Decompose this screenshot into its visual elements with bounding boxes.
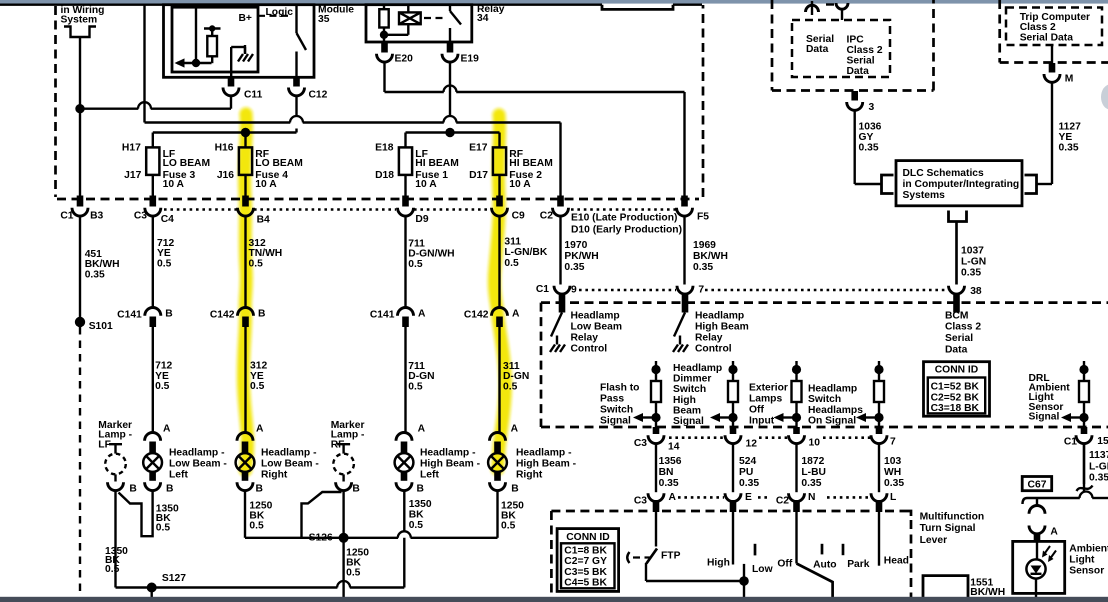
- svg-text:C3: C3: [634, 496, 647, 507]
- svg-text:Headlamp -: Headlamp -: [516, 447, 572, 458]
- svg-text:B: B: [511, 484, 518, 495]
- svg-text:35: 35: [318, 14, 330, 25]
- svg-text:Switch: Switch: [673, 384, 706, 395]
- svg-text:BK: BK: [409, 509, 424, 520]
- svg-text:0.5: 0.5: [157, 258, 172, 269]
- svg-text:Multifunction: Multifunction: [920, 511, 985, 522]
- svg-text:0.5: 0.5: [408, 259, 423, 270]
- svg-text:L-GN: L-GN: [1089, 461, 1108, 472]
- svg-text:C3=5 BK: C3=5 BK: [564, 567, 607, 578]
- svg-text:1356: 1356: [659, 456, 682, 467]
- svg-text:C2=52 BK: C2=52 BK: [931, 392, 980, 403]
- svg-text:1036: 1036: [859, 121, 882, 132]
- svg-text:GY: GY: [859, 132, 874, 143]
- svg-text:Relay: Relay: [695, 332, 723, 343]
- svg-text:Auto: Auto: [813, 560, 836, 571]
- svg-text:B: B: [417, 484, 424, 495]
- svg-text:C141: C141: [117, 309, 142, 320]
- svg-text:Beam: Beam: [673, 405, 701, 416]
- svg-text:Off: Off: [749, 405, 764, 416]
- svg-text:Control: Control: [571, 343, 608, 354]
- svg-text:Low Beam: Low Beam: [571, 321, 623, 332]
- svg-text:D17: D17: [469, 170, 488, 181]
- svg-text:On Signal: On Signal: [808, 416, 856, 427]
- svg-text:Headlamp -: Headlamp -: [420, 447, 476, 458]
- svg-text:B: B: [258, 309, 265, 320]
- svg-text:Class 2: Class 2: [1020, 22, 1056, 33]
- svg-text:Sensor: Sensor: [1069, 565, 1104, 576]
- svg-text:BCM: BCM: [945, 310, 968, 321]
- svg-text:L-GN: L-GN: [961, 257, 986, 268]
- svg-text:15: 15: [1097, 436, 1108, 447]
- svg-text:C2=7 GY: C2=7 GY: [564, 556, 607, 567]
- svg-text:10: 10: [809, 438, 821, 449]
- svg-text:Off: Off: [777, 558, 792, 569]
- svg-text:0.35: 0.35: [859, 143, 879, 154]
- svg-text:Data: Data: [945, 344, 968, 355]
- svg-text:Right: Right: [516, 469, 543, 480]
- svg-text:0.5: 0.5: [346, 567, 361, 578]
- svg-text:High Beam -: High Beam -: [420, 458, 481, 469]
- svg-text:N: N: [808, 492, 815, 503]
- svg-text:L: L: [890, 492, 896, 503]
- svg-text:Low Beam -: Low Beam -: [261, 458, 319, 469]
- svg-text:7: 7: [698, 284, 704, 295]
- svg-text:A: A: [256, 424, 264, 435]
- svg-text:High Beam -: High Beam -: [516, 458, 577, 469]
- svg-text:High Beam: High Beam: [695, 321, 749, 332]
- svg-text:Head: Head: [884, 555, 909, 566]
- svg-text:E: E: [745, 492, 752, 503]
- svg-text:1969: 1969: [693, 240, 716, 251]
- svg-text:0.35: 0.35: [85, 269, 105, 280]
- svg-text:C1: C1: [1064, 437, 1077, 448]
- svg-text:1037: 1037: [961, 246, 984, 257]
- svg-text:B+: B+: [239, 13, 252, 24]
- svg-text:J17: J17: [124, 170, 141, 181]
- svg-text:Signal: Signal: [1029, 411, 1060, 422]
- svg-text:0.5: 0.5: [408, 381, 423, 392]
- svg-text:S127: S127: [162, 573, 186, 584]
- svg-text:0.5: 0.5: [249, 520, 264, 531]
- svg-text:J16: J16: [217, 170, 234, 181]
- svg-text:Exterior: Exterior: [749, 383, 788, 394]
- svg-text:Data: Data: [806, 44, 829, 55]
- svg-text:IPC: IPC: [847, 34, 865, 45]
- svg-text:B: B: [256, 484, 263, 495]
- svg-text:H17: H17: [122, 143, 141, 154]
- svg-text:Headlamp: Headlamp: [571, 310, 620, 321]
- svg-text:A: A: [418, 309, 426, 320]
- svg-text:Data: Data: [847, 66, 870, 77]
- svg-text:High: High: [707, 557, 730, 568]
- svg-text:Input: Input: [749, 416, 775, 427]
- svg-text:Serial: Serial: [847, 55, 875, 66]
- svg-text:LO BEAM: LO BEAM: [163, 158, 210, 169]
- svg-text:Headlamp -: Headlamp -: [169, 447, 225, 458]
- svg-text:DLC Schematics: DLC Schematics: [903, 168, 985, 179]
- svg-text:CONN ID: CONN ID: [566, 532, 609, 543]
- svg-text:38: 38: [970, 286, 982, 297]
- svg-text:Flash to: Flash to: [600, 383, 639, 394]
- svg-text:Headlamp: Headlamp: [808, 383, 857, 394]
- svg-text:Lamps: Lamps: [749, 394, 782, 405]
- svg-text:D9: D9: [415, 214, 428, 225]
- svg-text:Signal: Signal: [600, 416, 631, 427]
- svg-text:A: A: [418, 424, 426, 435]
- svg-text:BN: BN: [659, 467, 674, 478]
- svg-text:PU: PU: [739, 467, 753, 478]
- svg-text:14: 14: [668, 442, 680, 453]
- svg-text:E17: E17: [469, 143, 488, 154]
- svg-text:FTP: FTP: [661, 550, 681, 561]
- svg-text:F5: F5: [697, 211, 709, 222]
- svg-text:10 A: 10 A: [509, 179, 531, 190]
- svg-text:Class 2: Class 2: [847, 45, 883, 56]
- svg-text:1872: 1872: [801, 456, 824, 467]
- svg-text:WH: WH: [884, 467, 901, 478]
- svg-text:E19: E19: [461, 54, 480, 65]
- svg-text:0.5: 0.5: [250, 381, 265, 392]
- svg-text:311: 311: [504, 237, 521, 248]
- svg-text:C1=52 BK: C1=52 BK: [931, 381, 980, 392]
- svg-text:LF: LF: [98, 439, 111, 450]
- svg-text:A: A: [512, 309, 520, 320]
- svg-text:C67: C67: [1028, 480, 1047, 491]
- svg-text:C12: C12: [309, 90, 328, 101]
- svg-text:0.5: 0.5: [155, 381, 170, 392]
- svg-text:12: 12: [746, 439, 758, 450]
- svg-text:0.35: 0.35: [693, 262, 713, 273]
- svg-text:0.5: 0.5: [105, 564, 120, 575]
- svg-text:RF: RF: [331, 439, 345, 450]
- svg-text:1350: 1350: [409, 499, 432, 510]
- svg-text:C141: C141: [370, 309, 395, 320]
- svg-text:YE: YE: [1059, 132, 1073, 143]
- svg-text:0.5: 0.5: [409, 520, 424, 531]
- svg-text:C3=18 BK: C3=18 BK: [931, 403, 980, 414]
- svg-text:A: A: [1050, 527, 1058, 538]
- svg-text:0.5: 0.5: [156, 523, 171, 534]
- svg-text:0.35: 0.35: [739, 478, 759, 489]
- svg-text:H16: H16: [215, 143, 234, 154]
- svg-text:B: B: [352, 484, 359, 495]
- svg-text:HI BEAM: HI BEAM: [415, 158, 458, 169]
- svg-text:L-BU: L-BU: [801, 467, 826, 478]
- svg-text:A: A: [511, 424, 519, 435]
- svg-text:Switch: Switch: [600, 405, 633, 416]
- svg-text:E18: E18: [375, 143, 394, 154]
- svg-text:0.35: 0.35: [659, 478, 679, 489]
- svg-text:0.35: 0.35: [1089, 473, 1108, 484]
- svg-text:0.35: 0.35: [961, 268, 981, 279]
- svg-text:Lever: Lever: [920, 535, 947, 546]
- svg-text:Class 2: Class 2: [945, 322, 981, 333]
- svg-text:Ambient: Ambient: [1069, 543, 1108, 554]
- svg-text:0.5: 0.5: [504, 258, 519, 269]
- svg-text:1127: 1127: [1059, 121, 1082, 132]
- svg-text:0.35: 0.35: [1059, 143, 1079, 154]
- svg-text:1970: 1970: [564, 240, 587, 251]
- svg-text:LO BEAM: LO BEAM: [255, 158, 302, 169]
- svg-text:PK/WH: PK/WH: [564, 251, 598, 262]
- svg-text:Left: Left: [420, 469, 439, 480]
- svg-text:BK/WH: BK/WH: [970, 587, 1005, 598]
- svg-text:C142: C142: [464, 309, 489, 320]
- svg-text:Headlamp: Headlamp: [695, 310, 744, 321]
- svg-text:10 A: 10 A: [415, 179, 437, 190]
- svg-text:A: A: [669, 492, 677, 503]
- svg-text:C4=5 BK: C4=5 BK: [564, 578, 607, 589]
- svg-text:HI BEAM: HI BEAM: [509, 158, 552, 169]
- svg-text:C11: C11: [244, 90, 263, 101]
- svg-text:0.5: 0.5: [501, 520, 516, 531]
- svg-text:Trip Computer: Trip Computer: [1020, 12, 1090, 23]
- svg-text:Control: Control: [695, 343, 732, 354]
- svg-text:C9: C9: [512, 211, 525, 222]
- svg-text:103: 103: [884, 456, 901, 467]
- svg-text:Left: Left: [169, 469, 188, 480]
- svg-text:Serial Data: Serial Data: [1020, 33, 1074, 44]
- svg-text:CONN ID: CONN ID: [935, 365, 978, 376]
- svg-text:C142: C142: [210, 309, 235, 320]
- svg-text:9: 9: [571, 284, 577, 295]
- svg-text:C4: C4: [161, 214, 174, 225]
- svg-text:E10 (Late Production): E10 (Late Production): [571, 212, 677, 223]
- svg-text:C3: C3: [134, 210, 147, 221]
- svg-text:C2: C2: [540, 211, 553, 222]
- svg-text:Headlamp -: Headlamp -: [261, 447, 317, 458]
- svg-text:0.35: 0.35: [884, 478, 904, 489]
- svg-text:0.35: 0.35: [801, 478, 821, 489]
- svg-text:C2: C2: [776, 495, 789, 506]
- svg-text:L-GN/BK: L-GN/BK: [504, 247, 547, 258]
- svg-text:Light: Light: [1069, 554, 1095, 565]
- svg-text:D18: D18: [375, 170, 394, 181]
- svg-text:B3: B3: [90, 210, 103, 221]
- svg-text:in Computer/Integrating: in Computer/Integrating: [903, 179, 1020, 190]
- svg-text:B: B: [165, 309, 172, 320]
- svg-text:Headlamps: Headlamps: [808, 405, 863, 416]
- svg-text:B4: B4: [257, 214, 270, 225]
- svg-text:S126: S126: [309, 532, 333, 543]
- svg-text:Headlamp: Headlamp: [673, 363, 722, 374]
- svg-text:Pass: Pass: [600, 394, 624, 405]
- svg-text:S101: S101: [89, 321, 113, 332]
- svg-text:7: 7: [890, 437, 896, 448]
- svg-text:Park: Park: [847, 559, 870, 570]
- svg-text:System: System: [61, 15, 98, 26]
- svg-text:C3: C3: [634, 438, 647, 449]
- svg-text:10 A: 10 A: [163, 179, 185, 190]
- svg-text:D10 (Early Production): D10 (Early Production): [571, 225, 682, 236]
- svg-text:BK/WH: BK/WH: [693, 251, 728, 262]
- svg-text:Systems: Systems: [903, 190, 946, 201]
- svg-text:M: M: [1065, 74, 1074, 85]
- svg-text:C1=8 BK: C1=8 BK: [564, 545, 607, 556]
- svg-text:10 A: 10 A: [255, 179, 277, 190]
- svg-text:Low Beam -: Low Beam -: [169, 458, 227, 469]
- svg-text:Relay: Relay: [571, 332, 599, 343]
- svg-text:Switch: Switch: [808, 394, 841, 405]
- svg-text:524: 524: [739, 456, 756, 467]
- svg-text:Right: Right: [261, 469, 288, 480]
- svg-text:A: A: [163, 424, 171, 435]
- svg-text:E20: E20: [395, 54, 414, 65]
- svg-text:B: B: [166, 484, 173, 495]
- svg-text:C1: C1: [536, 284, 549, 295]
- svg-text:B: B: [129, 484, 136, 495]
- svg-text:34: 34: [477, 13, 489, 24]
- svg-text:Serial: Serial: [945, 333, 973, 344]
- svg-text:High: High: [673, 395, 696, 406]
- svg-text:Signal: Signal: [673, 416, 704, 427]
- svg-text:C1: C1: [60, 210, 73, 221]
- svg-text:Dimmer: Dimmer: [673, 374, 711, 385]
- svg-text:Low: Low: [752, 564, 774, 575]
- svg-text:Turn Signal: Turn Signal: [920, 523, 976, 534]
- svg-text:0.35: 0.35: [564, 262, 584, 273]
- svg-text:1137: 1137: [1089, 450, 1108, 461]
- svg-text:3: 3: [869, 102, 875, 113]
